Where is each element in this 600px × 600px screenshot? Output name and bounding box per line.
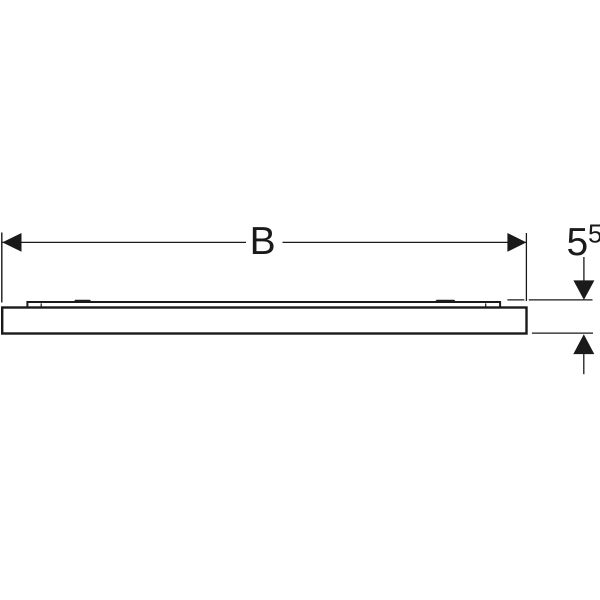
arrowhead down (top of height dimension) bbox=[573, 280, 594, 300]
arrowhead B right bbox=[507, 233, 526, 252]
reference line bottom (level of panel bottom) bbox=[532, 332, 593, 334]
extension line right (dimension B) bbox=[525, 233, 527, 301]
svg-text:5: 5 bbox=[588, 219, 600, 249]
lip end-cap tick left bbox=[40, 303, 42, 306]
reference line top (level of panel top) bbox=[507, 299, 524, 301]
dimension leader line above down arrow bbox=[583, 257, 585, 282]
dimension line B left segment bbox=[2, 241, 246, 243]
reference line top right segment bbox=[529, 299, 593, 301]
fixing pad left (bump on lip) bbox=[74, 300, 92, 302]
arrowhead B left bbox=[2, 233, 21, 252]
fixing pad right (bump on lip) bbox=[435, 300, 456, 302]
lip end-cap tick right bbox=[485, 303, 487, 306]
arrowhead up (bottom of height dimension) bbox=[573, 334, 594, 354]
svg-text:B: B bbox=[250, 220, 276, 263]
dimension leader line below up arrow bbox=[583, 354, 585, 374]
extension line left (dimension B) bbox=[1, 233, 3, 303]
svg-text:5: 5 bbox=[567, 221, 589, 264]
top profile lip bbox=[27, 302, 500, 307]
dimension line B right segment bbox=[283, 241, 527, 243]
panel body (main cross-section rectangle) bbox=[2, 308, 526, 334]
